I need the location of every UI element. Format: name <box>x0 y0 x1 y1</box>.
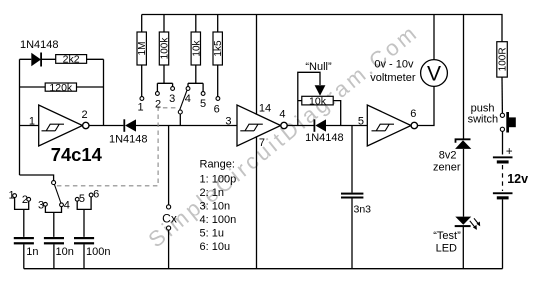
svg-text:5: 5 <box>358 116 364 128</box>
potentiometer wiper arrow <box>315 85 326 96</box>
svg-text:100n: 100n <box>86 246 110 258</box>
switch S1b arm <box>180 91 187 111</box>
svg-text:6: 6 <box>214 103 220 115</box>
wire 100k drop <box>157 15 172 92</box>
wire pin2 output <box>89 125 123 127</box>
capacitor C1 1n <box>14 237 34 244</box>
switch S1b contact 4 <box>186 87 190 91</box>
wire pole2 stub <box>179 114 181 126</box>
svg-text:2: 1n: 2: 1n <box>200 187 224 199</box>
wire 120k row <box>20 86 104 88</box>
wire switch to battery <box>502 131 504 154</box>
wire pot left <box>298 72 320 125</box>
wire pot right <box>333 101 341 126</box>
svg-text:4: 4 <box>279 109 285 121</box>
switch S1a contact 1 <box>13 194 17 198</box>
switch S1b pole <box>178 110 182 114</box>
svg-text:switch: switch <box>468 114 499 126</box>
op-amp U1A inverter <box>39 105 89 146</box>
wire cap C2 to ground <box>53 244 55 268</box>
resistor R3 1M <box>137 32 148 65</box>
switch S1a contact 2 <box>27 197 31 201</box>
voltmeter M1 <box>421 60 448 87</box>
svg-text:10n: 10n <box>56 246 74 258</box>
switch S1a pole <box>52 181 56 185</box>
switch S1a contact 4 <box>60 203 64 207</box>
wire 3n3 top <box>351 126 353 193</box>
diode D2 1N4148 <box>123 119 136 132</box>
svg-text:7: 7 <box>259 137 265 149</box>
wire 1k5 drop <box>217 15 219 97</box>
op-amp U1B inverter <box>237 105 287 146</box>
svg-text:10k: 10k <box>309 95 327 107</box>
wire feedback column <box>103 59 105 125</box>
resistor R2 2k2 <box>56 54 87 66</box>
svg-text:12v: 12v <box>507 172 528 186</box>
svg-text:push: push <box>471 102 495 114</box>
wire voltmeter top <box>433 15 435 60</box>
potentiometer 10k <box>302 95 333 107</box>
svg-text:3: 3 <box>169 93 175 105</box>
svg-text:100k: 100k <box>160 37 171 60</box>
svg-text:1: 1 <box>29 116 35 128</box>
node Cx terminals <box>167 205 171 209</box>
svg-text:5: 1u: 5: 1u <box>200 228 224 240</box>
wire 10k drop <box>188 15 203 92</box>
wire pin4 to diode D3 <box>286 125 313 127</box>
wire diode row <box>20 58 56 60</box>
push switch S2 <box>500 112 516 133</box>
svg-text:1n: 1n <box>26 246 38 258</box>
svg-text:+: + <box>506 146 513 158</box>
wire D3 to pin5 <box>326 125 368 127</box>
wire Cx drop <box>168 126 170 205</box>
wire pin6 output <box>418 87 434 126</box>
svg-text:V: V <box>427 63 441 86</box>
svg-text:1N4148: 1N4148 <box>20 39 59 51</box>
svg-text:6: 6 <box>93 189 99 201</box>
LED D5 Test <box>455 217 481 230</box>
ground bus wire <box>24 268 503 270</box>
svg-text:6: 6 <box>410 108 416 120</box>
wire pin7 <box>256 137 258 269</box>
svg-text:100R: 100R <box>498 47 509 71</box>
resistor R5 10k <box>191 32 202 65</box>
svg-text:10k: 10k <box>191 39 202 56</box>
wire 100R to switch <box>501 77 503 113</box>
resistor R1 120k <box>45 82 76 94</box>
wire LED to ground <box>462 227 464 269</box>
switch S1a arm <box>54 184 61 203</box>
battery B1 12v <box>493 146 513 200</box>
label range list <box>200 158 237 253</box>
svg-text:1: 100p: 1: 100p <box>200 174 237 186</box>
svg-text:5: 5 <box>200 98 206 110</box>
svg-text:3: 3 <box>38 199 44 211</box>
switch S1b contact 5 <box>201 92 205 96</box>
wire contact pair 1-2 bracket <box>15 198 29 237</box>
capacitor C3 100n <box>74 237 94 244</box>
svg-text:1: 1 <box>8 190 14 202</box>
svg-text:2: 2 <box>82 109 88 121</box>
svg-text:1N4148: 1N4148 <box>109 134 148 146</box>
wire cap C1 to ground <box>23 244 25 268</box>
resistor R4 100k <box>159 32 170 65</box>
wire pin1 input <box>20 125 39 127</box>
svg-text:1: 1 <box>138 101 144 113</box>
switch gang dashed link <box>57 108 177 186</box>
wire Cx to ground <box>168 230 170 269</box>
svg-text:0v - 10v: 0v - 10v <box>374 59 414 71</box>
svg-text:1N4148: 1N4148 <box>305 132 344 144</box>
capacitor C4 3n3 <box>341 193 363 199</box>
svg-text:6: 10u: 6: 10u <box>200 241 231 253</box>
resistor R7 100R <box>497 42 509 77</box>
svg-text:14: 14 <box>259 103 271 115</box>
wire 3n3 bottom <box>351 198 353 268</box>
switch S1b contact 1 <box>140 97 144 101</box>
svg-text:3: 10n: 3: 10n <box>200 201 231 213</box>
wire battery to ground <box>502 199 504 268</box>
svg-text:4: 4 <box>64 199 70 211</box>
svg-text:3: 3 <box>225 116 231 128</box>
wire pole1 arm feed <box>20 175 54 181</box>
svg-text:2k2: 2k2 <box>63 54 80 66</box>
svg-text:1k5: 1k5 <box>213 40 224 57</box>
top bus wire <box>142 15 502 42</box>
svg-text:“Null”: “Null” <box>305 61 332 73</box>
svg-text:1M: 1M <box>137 42 148 56</box>
svg-text:“Test”: “Test” <box>433 230 461 242</box>
switch S1a contact 6 <box>89 193 93 197</box>
wire 1M drop <box>141 15 143 97</box>
svg-text:LED: LED <box>436 243 457 255</box>
wire left column <box>19 59 21 175</box>
switch S1a contact 3 <box>44 202 48 206</box>
svg-text:2: 2 <box>155 99 161 111</box>
capacitor C2 10n <box>44 237 64 244</box>
diode D3 1N4148 <box>314 119 327 132</box>
svg-text:voltmeter: voltmeter <box>370 72 416 84</box>
svg-text:zener: zener <box>433 162 461 174</box>
wire zener to LED <box>463 149 465 217</box>
wire contact pair 5-6 bracket <box>77 197 91 237</box>
wire cap C3 to ground <box>83 244 85 268</box>
switch S1a contact 5 <box>75 197 79 201</box>
resistor R6 1k5 <box>213 32 224 65</box>
svg-text:3n3: 3n3 <box>354 204 372 216</box>
wire pin14 <box>256 15 258 115</box>
switch S1b contact 6 <box>216 97 220 101</box>
diode D1 1N4148 <box>31 53 42 67</box>
svg-text:Cx: Cx <box>162 211 177 225</box>
wire 2k2 to feedback <box>87 58 104 60</box>
svg-text:5: 5 <box>79 193 85 205</box>
svg-text:120k: 120k <box>49 82 73 94</box>
wire contact pair 3-4 bracket <box>45 206 61 237</box>
svg-text:2: 2 <box>22 194 28 206</box>
svg-text:74c14: 74c14 <box>51 144 103 165</box>
zener D4 8v2 <box>455 139 471 149</box>
svg-text:8v2: 8v2 <box>439 150 457 162</box>
op-amp U1C inverter <box>367 105 417 146</box>
switch S1b contact 2 <box>156 92 160 96</box>
switch S1b contact 3 <box>171 87 175 91</box>
wire main node <box>136 125 237 127</box>
svg-text:4: 100n: 4: 100n <box>200 214 237 226</box>
wire zener branch top <box>463 15 465 140</box>
svg-text:Range:: Range: <box>200 158 235 170</box>
